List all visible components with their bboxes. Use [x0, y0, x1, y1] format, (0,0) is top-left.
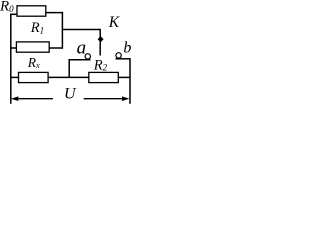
wire: Rx left stub	[10, 76, 18, 78]
wire: left rail vertical	[10, 14, 12, 104]
wire: R2 right stub	[118, 76, 130, 78]
svg-text:b: b	[123, 39, 131, 56]
wire: Rx to R2 connecting wire	[48, 76, 89, 78]
wire: mid vertical (R0/R1 right junction)	[61, 12, 63, 49]
wire: R0 right stub	[46, 12, 63, 14]
switch K pivot diamond	[98, 36, 103, 42]
wire: R0 left stub	[10, 13, 17, 15]
background	[0, 0, 133, 107]
resistor R0 box	[17, 6, 46, 16]
svg-text:U: U	[64, 86, 77, 103]
wire: R1 right stub	[49, 47, 63, 49]
wire: K feed horizontal	[62, 29, 100, 31]
wire: a terminal horizontal	[69, 59, 91, 61]
resistor R1 box	[16, 42, 49, 52]
wire: right rail vertical	[129, 58, 131, 104]
U dimension arrow left segment	[16, 98, 53, 100]
wire: K vertical with blade	[99, 29, 101, 56]
svg-text:K: K	[108, 14, 120, 31]
svg-text:a: a	[77, 37, 87, 58]
terminal b circle	[116, 53, 121, 58]
resistor R2 box	[89, 72, 119, 82]
wire: R1 left stub	[10, 47, 16, 49]
resistor Rx box	[19, 72, 49, 82]
U dimension arrowhead left	[11, 96, 18, 101]
U dimension arrow right segment	[84, 98, 124, 100]
U dimension arrowhead right	[122, 96, 129, 101]
terminal a circle	[85, 54, 90, 59]
wire: a-junction vertical	[68, 59, 70, 77]
wire: b terminal horizontal	[116, 58, 131, 60]
